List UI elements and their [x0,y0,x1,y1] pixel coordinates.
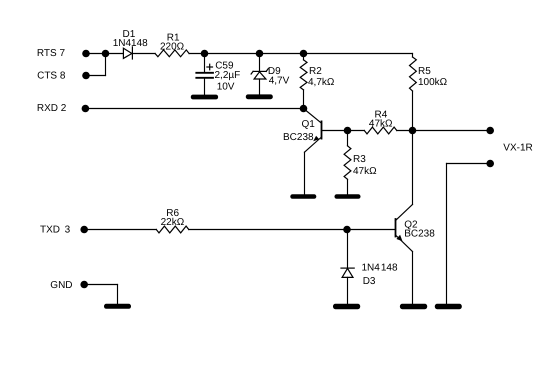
svg-text:10V: 10V [217,82,235,93]
svg-text:GND: GND [50,280,72,291]
svg-text:R3: R3 [353,154,366,165]
svg-text:47kΩ: 47kΩ [369,119,393,130]
svg-text:4,7kΩ: 4,7kΩ [308,77,335,88]
svg-text:22kΩ: 22kΩ [161,217,185,228]
svg-text:RXD 2: RXD 2 [37,103,67,114]
svg-text:CTS 8: CTS 8 [37,71,66,82]
svg-text:220Ω: 220Ω [160,41,185,52]
svg-text:D3: D3 [363,276,376,287]
svg-text:BC238: BC238 [283,132,314,143]
svg-text:100kΩ: 100kΩ [418,77,448,88]
svg-text:TXD 3: TXD 3 [40,225,71,236]
svg-text:VX-1R: VX-1R [503,142,532,153]
svg-text:Q1: Q1 [302,119,316,130]
svg-text:1N4148: 1N4148 [113,38,148,49]
svg-text:BC238: BC238 [404,229,435,240]
svg-text:47kΩ: 47kΩ [353,166,377,177]
svg-text:R2: R2 [309,66,322,77]
svg-text:RTS 7: RTS 7 [37,48,66,59]
svg-text:1N4148: 1N4148 [362,263,398,274]
svg-text:R5: R5 [418,66,431,77]
svg-text:4,7V: 4,7V [269,76,290,87]
svg-text:2,2µF: 2,2µF [215,70,241,81]
